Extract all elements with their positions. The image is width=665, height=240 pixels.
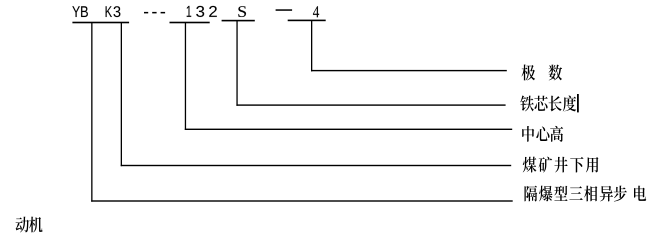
label char 下 of coal mine underground use label 煤矿井下用 <box>570 157 583 173</box>
model code letter B of YB <box>81 6 88 17</box>
vertical line from 4 down to pole-number leader <box>311 21 312 72</box>
label char 高 of centre height label 中心高 <box>550 126 563 142</box>
label char 数 of pole number label 极数 <box>549 65 563 81</box>
frame size digit 1 of 132 <box>187 6 192 17</box>
label char 用 of coal mine underground use label 煤矿井下用 <box>586 157 599 172</box>
leader line to coal mine label <box>121 165 512 166</box>
label char 极 of pole number label 极数 <box>522 65 536 81</box>
triple hyphen separator <box>144 12 148 14</box>
label char 相 of flameproof three-phase asynchronous label <box>584 186 597 202</box>
vertical line from K3 down to coal-mine leader <box>121 23 122 166</box>
label char 步 of flameproof three-phase asynchronous label <box>614 186 627 202</box>
label char 长 of core length label 铁芯长度 <box>549 96 562 112</box>
label char 电 of flameproof three-phase asynchronous label <box>634 186 646 201</box>
frame size digit 2 of 132 <box>209 6 217 17</box>
vertical line from S down to core-length leader <box>236 21 237 106</box>
underline under 4 <box>288 20 326 22</box>
frame size digit 3 of 132 <box>196 6 204 17</box>
underline under 132 <box>170 22 210 24</box>
em dash separator <box>276 9 293 11</box>
label char 煤 of coal mine underground use label 煤矿井下用 <box>523 157 537 173</box>
label char 铁 of core length label 铁芯长度 <box>520 96 534 112</box>
leader line to pole number label <box>311 70 507 71</box>
pole number digit 4 <box>313 6 319 17</box>
model code letter K of K3 <box>106 6 112 17</box>
label char 隔 of flameproof three-phase asynchronous label <box>525 186 538 202</box>
label char 型 of flameproof three-phase asynchronous label <box>554 186 567 201</box>
label char 动 of wrapped label 动机 <box>16 217 29 233</box>
underline under YB K3 <box>72 22 129 24</box>
model code letter Y of YB <box>72 6 80 17</box>
vertical line from 132 down to centre-height leader <box>185 23 186 130</box>
label char 度 of core length label 铁芯长度 <box>563 95 576 111</box>
label char 中 of centre height label 中心高 <box>522 126 534 142</box>
text cursor after 铁芯长度 <box>577 94 579 112</box>
leader line to motor type label <box>91 200 513 201</box>
label char 爆 of flameproof three-phase asynchronous label <box>539 186 552 202</box>
label char 芯 of core length label 铁芯长度 <box>534 96 547 111</box>
model code digit 3 of K3 <box>114 6 121 17</box>
underline under S <box>222 20 255 22</box>
core length code letter S <box>238 6 246 17</box>
label char 矿 of coal mine underground use label 煤矿井下用 <box>539 157 553 173</box>
label char 井 of coal mine underground use label 煤矿井下用 <box>554 157 567 173</box>
label char 心 of centre height label 中心高 <box>536 126 549 141</box>
leader line to centre height label <box>185 129 512 130</box>
label char 异 of flameproof three-phase asynchronous label <box>600 186 613 202</box>
leader line to core length label <box>236 104 505 105</box>
label char 三 of flameproof three-phase asynchronous label <box>569 186 582 200</box>
vertical line from YB down to motor-type leader <box>91 23 92 202</box>
label char 机 of wrapped label 动机 <box>29 217 42 233</box>
